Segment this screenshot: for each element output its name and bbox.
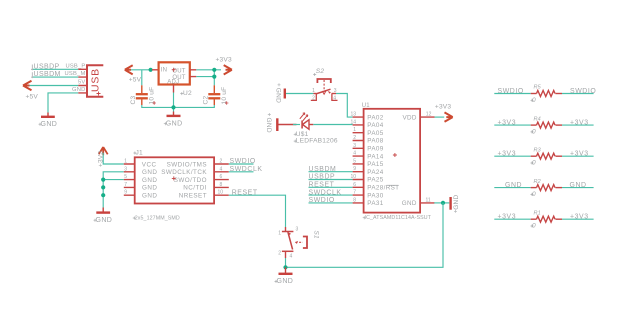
svg-text:VDD: VDD bbox=[402, 114, 416, 121]
junction J1 gnd 2 bbox=[101, 185, 105, 189]
svg-text:USB_P: USB_P bbox=[65, 63, 85, 69]
J1 pin numbers bbox=[124, 159, 223, 196]
wire USBDP bbox=[33, 68, 78, 70]
svg-text:R1: R1 bbox=[534, 210, 541, 216]
svg-text:NRESET: NRESET bbox=[179, 193, 207, 200]
svg-text:7: 7 bbox=[124, 182, 127, 188]
svg-text:VCC: VCC bbox=[142, 161, 157, 168]
ground flag (LED) bbox=[265, 113, 278, 133]
net label RESET (IC) bbox=[309, 182, 353, 189]
svg-text:PA08: PA08 bbox=[367, 138, 383, 145]
svg-text:R5: R5 bbox=[534, 85, 542, 91]
svg-text:S1: S1 bbox=[313, 231, 320, 239]
supply flag +5V (USB) bbox=[23, 81, 38, 101]
svg-text:NC/TDI: NC/TDI bbox=[183, 185, 207, 192]
svg-text:5: 5 bbox=[353, 158, 356, 164]
svg-text:R3: R3 bbox=[534, 147, 542, 153]
junction S1/gnd rail bbox=[283, 265, 287, 269]
net label USBDP bbox=[31, 63, 60, 70]
svg-text:IC_ATSAMD11C14A-SSUT: IC_ATSAMD11C14A-SSUT bbox=[365, 215, 432, 221]
svg-text:SWDIO: SWDIO bbox=[570, 88, 596, 95]
svg-text:PA09: PA09 bbox=[367, 146, 383, 153]
svg-text:GND: GND bbox=[41, 121, 58, 128]
ground (J1) bbox=[94, 208, 113, 224]
svg-text:PA05: PA05 bbox=[367, 130, 383, 137]
regulator pin ADJ bbox=[173, 85, 175, 93]
wire GND loop down bbox=[286, 203, 444, 267]
svg-text:PA15: PA15 bbox=[367, 161, 383, 168]
capacitor C3 bbox=[130, 85, 156, 105]
svg-text:6: 6 bbox=[353, 182, 356, 188]
connector USB body bbox=[87, 65, 103, 96]
junction GND pin bbox=[441, 201, 445, 205]
wire OUT2 to C2 bbox=[196, 76, 214, 78]
connector USB pin stubs bbox=[78, 69, 87, 93]
svg-text:4: 4 bbox=[353, 151, 356, 157]
svg-text:2: 2 bbox=[353, 135, 356, 141]
junction J1 gnd 3 bbox=[101, 193, 105, 197]
wire +5V rail to regulator bbox=[131, 69, 152, 71]
supply flag +5V (regulator input) bbox=[125, 65, 142, 83]
pushbutton S1 bbox=[278, 227, 319, 268]
junction regulator input bbox=[149, 68, 153, 72]
ground (USB) bbox=[39, 113, 58, 128]
svg-text:GND: GND bbox=[277, 278, 294, 285]
svg-text:GND: GND bbox=[142, 177, 157, 184]
net label RESET (J1) and wire to S1 bbox=[229, 190, 286, 227]
svg-text:2: 2 bbox=[278, 250, 281, 256]
resistor R5 bbox=[494, 85, 596, 104]
svg-text:GND: GND bbox=[453, 194, 460, 209]
wire GND bus J1 bbox=[103, 172, 124, 208]
svg-text:GND: GND bbox=[142, 193, 157, 200]
LED U$1 bbox=[294, 113, 338, 145]
svg-text:U2: U2 bbox=[183, 90, 192, 97]
wire USBDM bbox=[33, 76, 78, 78]
resistor R3 bbox=[494, 147, 593, 166]
ground flag (S2) bbox=[275, 83, 285, 103]
svg-text:8: 8 bbox=[353, 197, 356, 203]
svg-text:PA02: PA02 bbox=[367, 114, 383, 121]
regulator pins OUT bbox=[190, 70, 197, 77]
wire GND to LED bbox=[279, 124, 297, 126]
wire ADJ down bbox=[173, 93, 175, 112]
svg-text:14: 14 bbox=[350, 119, 356, 125]
svg-text:IN: IN bbox=[161, 68, 167, 74]
svg-text:SWDCLK/TCK: SWDCLK/TCK bbox=[161, 169, 207, 176]
svg-text:GND: GND bbox=[142, 169, 157, 176]
svg-text:PA25: PA25 bbox=[367, 177, 383, 184]
svg-text:+3V3: +3V3 bbox=[570, 151, 589, 158]
svg-text:PA24: PA24 bbox=[367, 169, 383, 176]
IC pin numbers left bbox=[350, 112, 356, 204]
resistor R2 bbox=[494, 179, 593, 198]
wire C2 vertical bbox=[213, 70, 215, 86]
regulator U2 pin IN bbox=[152, 69, 159, 71]
svg-text:12: 12 bbox=[426, 112, 432, 118]
wire OUT1 to +3V3 bbox=[196, 69, 221, 71]
net label USBDP (IC) bbox=[309, 174, 353, 181]
svg-text:USB: USB bbox=[90, 68, 102, 92]
svg-text:4: 4 bbox=[220, 166, 223, 172]
net label SWDCLK (IC) bbox=[309, 189, 353, 196]
svg-text:GND: GND bbox=[72, 87, 85, 93]
J1 pin names bbox=[142, 161, 208, 199]
svg-text:U1: U1 bbox=[362, 103, 371, 109]
wire GND of USB bbox=[48, 93, 78, 113]
svg-text:6: 6 bbox=[220, 174, 223, 180]
svg-text:GND: GND bbox=[570, 182, 587, 189]
junction OUT2/C2 bbox=[212, 75, 216, 79]
supply flag +3V3 (J1) bbox=[97, 147, 107, 167]
IC pin numbers right bbox=[426, 112, 432, 204]
voltage regulator U2 bbox=[159, 62, 192, 97]
svg-text:9: 9 bbox=[353, 166, 356, 172]
supply flag +3V3 (regulator output) bbox=[216, 56, 233, 74]
IC right pin stubs bbox=[420, 117, 434, 203]
net label USBDM (IC) bbox=[309, 166, 353, 173]
wire C2 bottom to rail bbox=[174, 105, 215, 107]
svg-text:GND: GND bbox=[142, 185, 157, 192]
svg-text:2x5_127MM_SMD: 2x5_127MM_SMD bbox=[135, 216, 180, 222]
svg-text:4: 4 bbox=[333, 95, 336, 101]
wire C3 tap bbox=[141, 70, 143, 86]
net label SWDIO (IC) bbox=[309, 197, 353, 204]
svg-text:+5V: +5V bbox=[129, 76, 142, 83]
svg-text:C2: C2 bbox=[203, 96, 210, 105]
svg-text:GND: GND bbox=[96, 217, 113, 224]
wire 5V bbox=[30, 85, 79, 87]
net label SWDCLK (J1) bbox=[229, 166, 263, 173]
svg-text:GND: GND bbox=[265, 118, 272, 133]
pushbutton S2 bbox=[311, 68, 338, 101]
svg-text:J1: J1 bbox=[136, 149, 143, 156]
header J1 body bbox=[133, 149, 214, 221]
svg-text:11: 11 bbox=[426, 197, 431, 203]
svg-text:+3V3: +3V3 bbox=[216, 56, 233, 63]
ground (regulator) bbox=[164, 112, 183, 128]
resistor R1 bbox=[494, 210, 593, 229]
wire GND pin to flag bbox=[434, 202, 449, 204]
svg-text:3: 3 bbox=[296, 227, 299, 233]
wire S2 to IC pin13 bbox=[336, 94, 353, 118]
ground (S1) bbox=[275, 267, 294, 285]
IC left pin stubs bbox=[353, 117, 364, 203]
svg-text:13: 13 bbox=[350, 112, 356, 118]
svg-text:9: 9 bbox=[124, 190, 127, 196]
IC pin names bbox=[367, 114, 417, 207]
wire +3V3 to J1 pin1 bbox=[103, 153, 124, 164]
junction ADJ/rail bbox=[171, 105, 175, 109]
svg-text:5: 5 bbox=[124, 174, 127, 180]
svg-text:GND: GND bbox=[402, 200, 417, 207]
svg-text:5V: 5V bbox=[78, 79, 86, 85]
svg-text:S2: S2 bbox=[316, 68, 325, 75]
svg-text:8: 8 bbox=[220, 182, 223, 188]
junction J1 gnd 1 bbox=[101, 178, 105, 182]
svg-text:3: 3 bbox=[353, 143, 356, 149]
wire GND to S2 bbox=[286, 93, 313, 95]
svg-text:SWDIO/TMS: SWDIO/TMS bbox=[167, 161, 207, 168]
svg-text:R4: R4 bbox=[534, 116, 541, 122]
svg-text:7: 7 bbox=[353, 190, 356, 196]
svg-text:2: 2 bbox=[312, 95, 315, 101]
origin cross J1 SWO bbox=[172, 176, 176, 180]
net label USBDM bbox=[31, 71, 61, 78]
svg-text:1: 1 bbox=[353, 127, 356, 133]
net label SWDIO (J1) bbox=[229, 158, 256, 165]
supply flag +3V3 (VDD) bbox=[435, 104, 453, 122]
ground flag (IC) bbox=[451, 194, 460, 212]
svg-text:USB_M: USB_M bbox=[65, 71, 86, 77]
svg-text:3: 3 bbox=[124, 166, 127, 172]
svg-text:PA04: PA04 bbox=[367, 122, 383, 129]
svg-text:1: 1 bbox=[124, 159, 127, 165]
IC U1 body bbox=[362, 103, 432, 221]
svg-text:2: 2 bbox=[220, 159, 223, 165]
svg-text:SWO/TDO: SWO/TDO bbox=[174, 177, 207, 184]
svg-text:+3V3: +3V3 bbox=[570, 120, 589, 127]
svg-text:1: 1 bbox=[278, 231, 281, 237]
svg-text:GND: GND bbox=[275, 88, 282, 103]
svg-text:+3V3: +3V3 bbox=[570, 214, 589, 221]
svg-text:R2: R2 bbox=[534, 179, 541, 185]
svg-text:+3V3: +3V3 bbox=[435, 104, 452, 111]
junction OUT1/C2 bbox=[212, 68, 216, 72]
svg-text:10: 10 bbox=[218, 190, 224, 196]
svg-text:PA31: PA31 bbox=[367, 200, 383, 207]
svg-text:GND: GND bbox=[166, 120, 183, 127]
J1 right pin stubs bbox=[214, 164, 229, 195]
svg-text:PA14: PA14 bbox=[367, 153, 383, 160]
wire C3 bottom to rail bbox=[142, 105, 174, 107]
resistor R4 bbox=[494, 116, 593, 135]
svg-text:+5V: +5V bbox=[26, 94, 39, 101]
wire VDD to +3V3 bbox=[435, 116, 445, 118]
svg-text:4: 4 bbox=[290, 254, 293, 260]
J1 left pin stubs bbox=[124, 164, 135, 195]
wire LED to IC pin14 bbox=[313, 124, 352, 126]
capacitor C2 bbox=[203, 85, 229, 105]
svg-text:C3: C3 bbox=[130, 96, 137, 105]
svg-text:LEDFAB1206: LEDFAB1206 bbox=[296, 138, 338, 145]
svg-text:PA30: PA30 bbox=[367, 192, 383, 199]
svg-text:1: 1 bbox=[312, 88, 315, 94]
